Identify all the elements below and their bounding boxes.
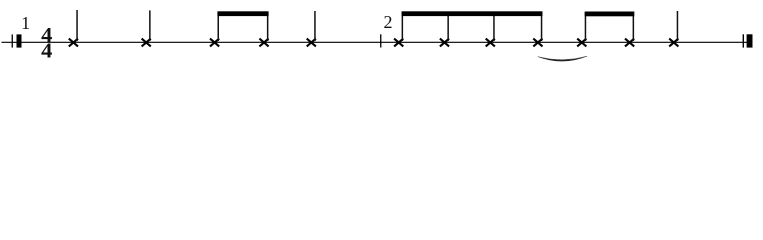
measure number 2 — [384, 12, 393, 32]
note 4 eighth: notehead X — [259, 39, 268, 47]
beam 2 over notes 6-9 — [402, 11, 543, 16]
note 8 eighth: stem — [493, 12, 495, 41]
final barline thick — [747, 34, 753, 47]
staff line — [2, 42, 753, 43]
note 5 quarter: stem — [314, 11, 316, 41]
final barline thin — [743, 34, 744, 47]
note 6 eighth: notehead X — [394, 39, 403, 47]
note 1 quarter: notehead X — [69, 39, 78, 47]
note 3 eighth: notehead X — [210, 39, 219, 47]
note 4 eighth: stem — [267, 12, 269, 41]
note 12 quarter: notehead X — [669, 39, 678, 47]
note 5 quarter: notehead X — [307, 39, 316, 47]
svg-text:1: 1 — [21, 13, 30, 33]
note 1 quarter: stem — [76, 10, 78, 41]
begin barline thick — [17, 34, 22, 47]
tie from note 9 to note 10 — [538, 56, 587, 61]
note 12 quarter: stem — [677, 11, 679, 41]
svg-text:2: 2 — [384, 12, 393, 32]
note 10 eighth: stem — [585, 12, 587, 41]
note 7 eighth: notehead X — [440, 39, 449, 47]
beam 3 over notes 10-11 — [585, 12, 635, 17]
note 3 eighth: stem — [218, 12, 220, 41]
time signature numerator 4 — [41, 23, 53, 47]
note 10 eighth: notehead X — [577, 39, 586, 47]
svg-text:4: 4 — [41, 38, 53, 62]
note 6 eighth: stem — [402, 12, 404, 41]
note 11 eighth: notehead X — [625, 39, 634, 47]
time signature denominator 4 — [41, 38, 53, 62]
measure number 1 — [21, 13, 30, 33]
note 8 eighth: notehead X — [486, 39, 495, 47]
barline between measures 1 and 2 — [380, 34, 381, 47]
note 7 eighth: stem — [447, 12, 449, 41]
note 11 eighth: stem — [633, 12, 635, 41]
beam 1 over notes 3-4 — [217, 11, 268, 16]
note 9 eighth: notehead X — [533, 39, 542, 47]
note 2 quarter: notehead X — [142, 39, 151, 47]
note 9 eighth: stem — [541, 12, 543, 41]
note 2 quarter: stem — [149, 10, 151, 41]
begin barline thin — [12, 34, 13, 47]
